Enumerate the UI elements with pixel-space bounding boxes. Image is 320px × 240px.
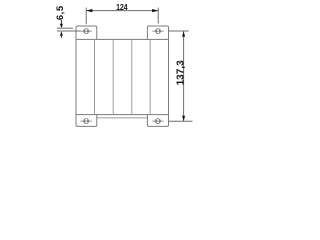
dim 124: extension line left: [85, 8, 87, 25]
dim 6,5: lower ref line (through hole): [57, 30, 81, 32]
dim 137,3: down arrow: [182, 116, 185, 121]
dim 137,3: dimension line: [183, 31, 185, 121]
svg-text:6,5: 6,5: [55, 5, 66, 20]
bottom step line: [97, 117, 148, 119]
dim 6,5: down arrow: [60, 24, 63, 29]
dim 124: extension line right: [157, 8, 159, 24]
dim 6,5: upper ref line: [57, 27, 73, 29]
dim 6,5: up arrow: [60, 31, 63, 36]
dim 124: dimension line: [86, 10, 158, 12]
hole top-right: [152, 29, 163, 34]
dim 124: left arrow: [86, 9, 92, 12]
dim 137,3: top ref line: [169, 30, 189, 32]
svg-text:124: 124: [116, 3, 128, 13]
top-right tab: [147, 26, 168, 39]
svg-text:137,3: 137,3: [175, 60, 186, 85]
hole bottom-left: [81, 119, 92, 124]
divider line 2: [112, 40, 114, 114]
divider line 4: [149, 40, 151, 114]
bottom-right tab: [147, 115, 168, 127]
dim 137,3: up arrow: [182, 31, 185, 36]
bottom-left tab: [76, 115, 97, 127]
hole top-left: [81, 29, 92, 34]
top-left tab: [76, 26, 97, 39]
hole bottom-right: [152, 119, 163, 124]
dim 124: right arrow: [152, 9, 158, 12]
dim 6,5: lower leader line: [60, 35, 62, 39]
body outline: [76, 39, 169, 114]
dim 6,5: upper leader line: [60, 20, 62, 25]
divider line 1: [94, 40, 96, 114]
divider line 3: [131, 40, 133, 114]
dim 137,3: bottom ref line: [169, 120, 193, 122]
